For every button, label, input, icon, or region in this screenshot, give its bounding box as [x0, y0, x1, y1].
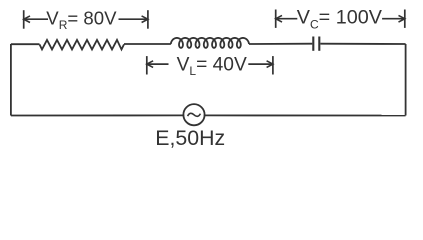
wire top-left segment: [11, 43, 40, 45]
AC source circle: [183, 104, 204, 125]
svg-text:E,50Hz: E,50Hz: [155, 126, 225, 150]
VL dimension left arrow: [147, 63, 169, 65]
VC dimension right bar: [404, 10, 406, 28]
VR dimension right bar: [147, 10, 149, 29]
AC source sine symbol: [188, 113, 201, 116]
VR dimension left arrow: [24, 18, 48, 20]
capacitor C left plate: [312, 37, 314, 51]
svg-text:VL= 40V: VL= 40V: [177, 54, 247, 78]
resistor R: [40, 40, 125, 50]
wire resistor-to-inductor: [124, 43, 171, 45]
VL dimension right arrow: [248, 63, 273, 65]
VC dimension right arrow: [382, 18, 405, 20]
VC dimension left arrow: [276, 18, 298, 20]
VR dimension right arrow: [119, 18, 148, 20]
inductor L: [171, 38, 249, 48]
VL dimension left bar: [146, 56, 148, 74]
VL dimension right bar: [272, 56, 274, 74]
VC dimension left bar: [275, 10, 277, 28]
capacitor C right plate: [318, 37, 320, 51]
svg-text:VR= 80V: VR= 80V: [46, 7, 117, 32]
wire inductor-to-capacitor: [249, 43, 312, 45]
svg-text:VC= 100V: VC= 100V: [297, 7, 383, 32]
VR dimension left bar: [23, 10, 25, 29]
wire bottom-right segment: [204, 114, 406, 116]
wire capacitor-to-corner: [320, 43, 405, 45]
wire right side: [405, 44, 407, 116]
wire left side: [10, 44, 12, 116]
wire bottom-left segment: [11, 114, 184, 116]
